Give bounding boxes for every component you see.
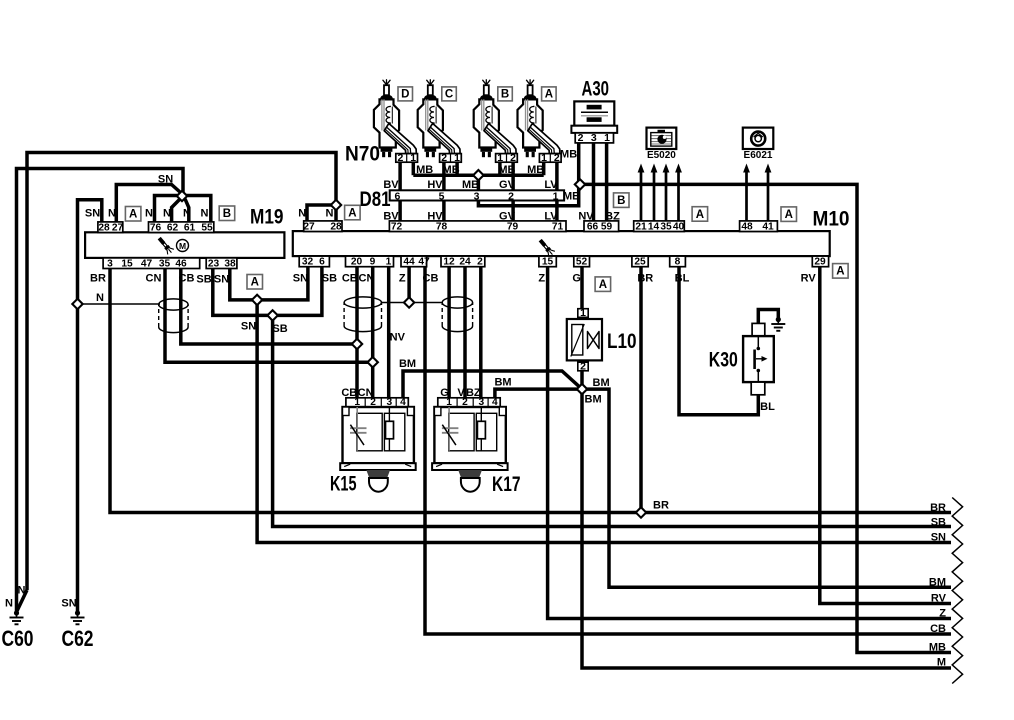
svg-text:BZ: BZ [466, 387, 481, 399]
svg-text:NV: NV [578, 210, 594, 222]
svg-text:23: 23 [208, 258, 220, 269]
svg-text:1: 1 [410, 152, 416, 164]
svg-text:A: A [599, 279, 607, 291]
svg-text:62: 62 [167, 222, 179, 233]
svg-text:MB: MB [563, 191, 580, 203]
svg-text:G: G [440, 387, 449, 399]
svg-text:1: 1 [580, 307, 586, 319]
svg-text:HV: HV [427, 210, 443, 222]
svg-text:MB: MB [929, 642, 946, 654]
svg-text:N: N [108, 208, 116, 220]
svg-text:1: 1 [454, 152, 460, 164]
svg-text:SN: SN [241, 321, 256, 333]
svg-text:A30: A30 [582, 78, 610, 101]
svg-text:41: 41 [762, 221, 774, 232]
svg-text:CB: CB [341, 387, 357, 399]
svg-text:C: C [445, 89, 453, 101]
svg-text:BM: BM [399, 358, 416, 370]
svg-text:1: 1 [553, 190, 559, 202]
svg-text:G: G [572, 273, 581, 285]
svg-text:A: A [129, 209, 137, 221]
svg-text:MB: MB [527, 164, 544, 176]
svg-text:2: 2 [441, 152, 447, 164]
svg-text:47: 47 [141, 258, 153, 269]
svg-text:GV: GV [499, 179, 516, 191]
svg-text:M19: M19 [250, 206, 284, 229]
svg-text:38: 38 [224, 258, 236, 269]
svg-text:BM: BM [585, 393, 602, 405]
svg-text:E6021: E6021 [744, 150, 773, 161]
svg-text:A: A [251, 277, 259, 289]
svg-text:21: 21 [635, 221, 647, 232]
svg-text:GV: GV [499, 210, 516, 222]
svg-text:N70: N70 [345, 143, 380, 166]
svg-text:40: 40 [673, 221, 685, 232]
svg-text:46: 46 [175, 258, 187, 269]
svg-text:N: N [96, 292, 104, 304]
svg-text:SB: SB [322, 273, 337, 285]
svg-text:25: 25 [634, 257, 646, 268]
svg-text:44: 44 [403, 257, 415, 268]
svg-text:BR: BR [930, 502, 946, 514]
svg-text:BR: BR [653, 500, 669, 512]
svg-text:79: 79 [507, 221, 519, 232]
svg-text:3: 3 [591, 132, 597, 144]
svg-text:1: 1 [541, 152, 547, 164]
svg-text:27: 27 [303, 221, 315, 232]
svg-text:HV: HV [427, 179, 443, 191]
svg-text:N: N [183, 208, 191, 220]
svg-text:5: 5 [439, 190, 445, 202]
svg-text:3: 3 [474, 190, 480, 202]
svg-text:2: 2 [578, 132, 584, 144]
svg-text:2: 2 [397, 152, 403, 164]
svg-text:E5020: E5020 [647, 150, 676, 161]
svg-text:SN: SN [214, 274, 229, 286]
svg-text:A: A [348, 207, 356, 219]
svg-text:V: V [457, 387, 465, 399]
svg-text:2: 2 [554, 152, 560, 164]
svg-text:1: 1 [386, 257, 392, 268]
svg-text:9: 9 [370, 257, 376, 268]
svg-text:28: 28 [330, 221, 342, 232]
svg-text:C62: C62 [62, 626, 94, 651]
svg-text:N: N [145, 208, 153, 220]
svg-text:NV: NV [390, 332, 406, 344]
svg-text:66: 66 [587, 221, 599, 232]
svg-text:M: M [179, 241, 186, 251]
svg-text:6: 6 [319, 257, 325, 268]
svg-text:1: 1 [497, 152, 503, 164]
svg-text:K17: K17 [492, 472, 521, 496]
svg-text:24: 24 [459, 257, 471, 268]
svg-text:CN: CN [146, 273, 162, 285]
svg-text:N: N [326, 208, 334, 220]
svg-text:MB: MB [416, 164, 433, 176]
svg-text:N: N [201, 208, 209, 220]
svg-text:D81: D81 [360, 188, 391, 211]
svg-text:B: B [501, 89, 509, 101]
svg-text:52: 52 [576, 257, 588, 268]
svg-text:61: 61 [184, 222, 196, 233]
svg-text:BZ: BZ [605, 210, 620, 222]
svg-text:D: D [401, 89, 409, 101]
svg-text:MB: MB [560, 149, 577, 161]
svg-text:35: 35 [159, 258, 171, 269]
svg-text:BM: BM [593, 377, 610, 389]
svg-text:M: M [937, 657, 946, 669]
svg-text:72: 72 [391, 221, 403, 232]
svg-text:MB: MB [462, 179, 479, 191]
svg-text:Z: Z [399, 273, 406, 285]
svg-text:47: 47 [418, 257, 430, 268]
svg-text:CN: CN [359, 273, 375, 285]
svg-text:28: 28 [98, 222, 110, 233]
svg-text:76: 76 [150, 222, 162, 233]
svg-text:LV: LV [544, 179, 558, 191]
svg-text:BR: BR [637, 273, 653, 285]
svg-text:CB: CB [423, 273, 439, 285]
svg-text:MB: MB [498, 164, 515, 176]
svg-text:CB: CB [179, 273, 195, 285]
svg-text:2: 2 [580, 360, 586, 372]
svg-text:SB: SB [272, 323, 287, 335]
svg-text:55: 55 [201, 222, 213, 233]
svg-text:SN: SN [158, 174, 173, 186]
svg-text:1: 1 [604, 132, 610, 144]
svg-text:SN: SN [85, 208, 100, 220]
svg-text:78: 78 [436, 221, 448, 232]
svg-text:Z: Z [939, 608, 946, 620]
svg-text:A: A [836, 266, 844, 278]
svg-text:A: A [785, 209, 793, 221]
svg-text:N: N [163, 208, 171, 220]
svg-text:BV: BV [383, 210, 399, 222]
svg-text:6: 6 [394, 190, 400, 202]
svg-text:27: 27 [112, 222, 124, 233]
svg-text:LV: LV [544, 210, 558, 222]
svg-text:2: 2 [477, 257, 483, 268]
svg-text:3: 3 [107, 258, 113, 269]
svg-text:K30: K30 [709, 348, 738, 372]
svg-text:L10: L10 [607, 330, 637, 353]
svg-text:2: 2 [508, 190, 514, 202]
svg-text:RV: RV [931, 593, 947, 605]
svg-text:C60: C60 [2, 626, 34, 651]
svg-text:15: 15 [121, 258, 133, 269]
svg-text:A: A [545, 89, 553, 101]
svg-text:SN: SN [293, 273, 308, 285]
svg-text:20: 20 [351, 257, 363, 268]
svg-text:71: 71 [552, 221, 564, 232]
svg-text:B: B [617, 195, 625, 207]
svg-text:15: 15 [542, 257, 554, 268]
svg-text:8: 8 [675, 257, 681, 268]
svg-text:35: 35 [660, 221, 672, 232]
svg-text:CB: CB [930, 623, 946, 635]
svg-text:M10: M10 [813, 208, 850, 231]
svg-text:BV: BV [383, 179, 399, 191]
svg-text:K15: K15 [330, 472, 357, 496]
svg-text:BM: BM [929, 576, 946, 588]
svg-text:B: B [223, 208, 231, 220]
svg-text:MB: MB [443, 164, 460, 176]
svg-text:BR: BR [90, 273, 106, 285]
svg-text:SB: SB [196, 274, 211, 286]
svg-text:CB: CB [342, 273, 358, 285]
svg-text:N: N [5, 598, 13, 610]
svg-text:12: 12 [443, 257, 455, 268]
svg-text:48: 48 [741, 221, 753, 232]
svg-text:A: A [696, 209, 704, 221]
svg-text:29: 29 [814, 257, 826, 268]
svg-text:BL: BL [675, 273, 690, 285]
svg-text:N: N [298, 208, 306, 220]
svg-text:SN: SN [931, 532, 946, 544]
svg-text:2: 2 [510, 152, 516, 164]
svg-text:CN: CN [358, 387, 374, 399]
svg-text:32: 32 [302, 257, 314, 268]
svg-text:Z: Z [538, 273, 545, 285]
svg-text:N: N [18, 585, 26, 597]
svg-text:BM: BM [494, 377, 511, 389]
svg-text:RV: RV [801, 273, 817, 285]
svg-text:BL: BL [760, 401, 775, 413]
svg-text:14: 14 [648, 221, 660, 232]
svg-text:SB: SB [931, 517, 946, 529]
svg-text:59: 59 [601, 221, 613, 232]
svg-text:SN: SN [61, 598, 76, 610]
